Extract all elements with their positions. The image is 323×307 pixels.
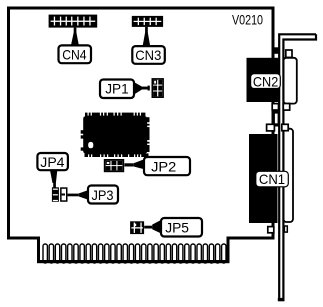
svg-text:CN1: CN1 [259,171,285,187]
svg-text:JP4: JP4 [40,154,64,170]
CN1 D-sub top screw tab [282,124,288,130]
CN2 D-sub bottom screw tab [283,104,289,111]
CN2 D-sub shell [283,58,296,104]
connector CN1 body [249,134,278,223]
board edge pad with slot [274,108,280,127]
jumper JP1 block [152,78,164,98]
CN2 label box [251,73,281,89]
CN2 D-sub top screw tab [286,50,292,57]
JP4 callout stem [50,170,57,187]
board bottom edge over fingers [37,260,230,263]
edge connector fingers [43,244,226,263]
svg-text:JP3: JP3 [92,187,114,203]
CN1 D-sub shell [283,129,293,222]
JP1 label box [100,80,134,99]
CN3 label box [132,46,165,64]
connector CN3 header [132,16,163,27]
IC chip U1 [81,112,150,157]
JP2 label box [144,157,190,175]
CN1 label box [256,171,288,187]
JP3 callout arrow [68,190,89,200]
JP5 callout arrow [144,220,161,234]
JP4 label box [37,153,68,170]
JP5 label box [161,218,202,237]
CN4 callout stem [71,28,79,46]
svg-text:JP2: JP2 [151,158,176,174]
JP2 callout arrow [124,159,144,169]
CN1 D-sub bottom screw tab [284,226,287,232]
solder tab at bracket top [274,47,279,54]
board tab above CN1 [267,124,275,131]
JP3 label box [88,186,118,204]
svg-text:CN4: CN4 [62,47,87,63]
jumper JP5 block [130,221,144,234]
mounting bracket [278,34,316,301]
board outline [9,8,274,262]
JP1 callout arrow [134,82,150,95]
board tab below CN2 [272,104,278,110]
connector CN2 body [247,58,281,102]
jumper JP3/JP4 block [52,187,68,202]
CN3 callout stem [143,27,151,46]
connector CN4 header [49,15,98,28]
svg-text:JP1: JP1 [105,80,129,96]
board tab below CN1 [268,227,274,233]
svg-text:JP5: JP5 [165,220,189,236]
svg-text:CN3: CN3 [135,47,161,63]
jumper JP2 block [104,159,124,172]
svg-text:CN2: CN2 [253,73,279,89]
CN4 label box [59,45,92,63]
svg-text:V0210: V0210 [232,11,263,27]
